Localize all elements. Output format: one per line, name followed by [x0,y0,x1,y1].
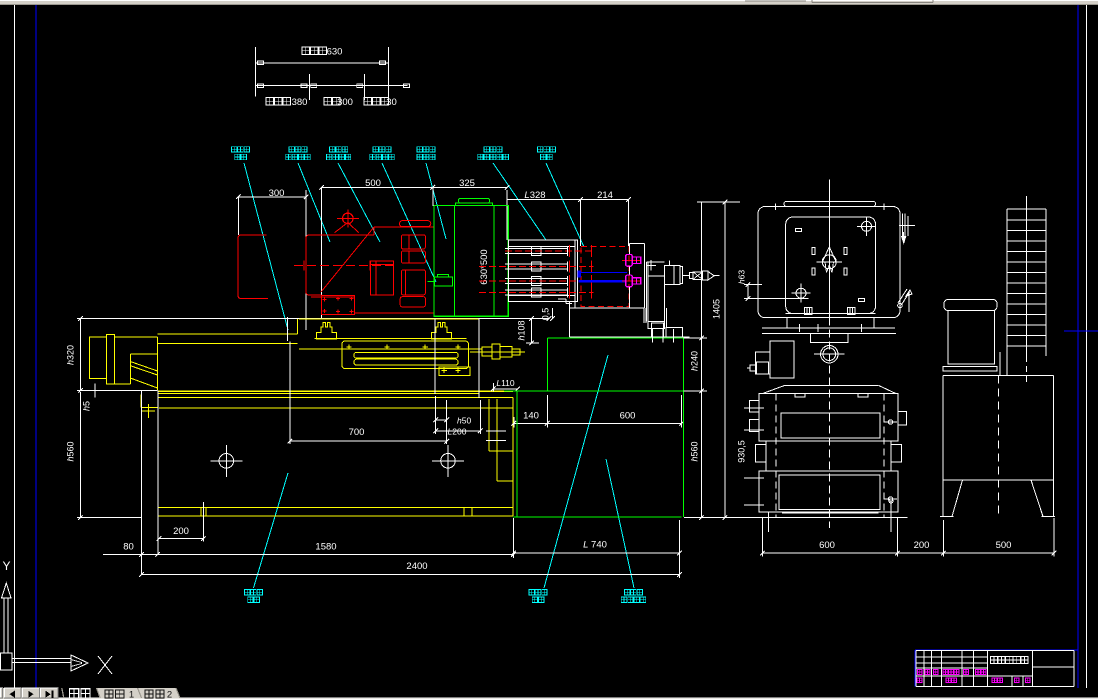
svg-text:200: 200 [173,526,189,537]
svg-text:h240: h240 [690,351,700,371]
svg-text:600: 600 [620,411,636,422]
svg-text:630: 630 [327,47,343,58]
svg-text:600: 600 [819,540,835,551]
svg-text:h50: h50 [457,416,471,426]
svg-text:2400: 2400 [406,561,427,572]
svg-text:2: 2 [167,689,172,699]
svg-text:Y: Y [2,559,10,573]
svg-text:300: 300 [337,97,353,108]
svg-text:30: 30 [386,97,397,108]
svg-text:1405: 1405 [712,299,722,319]
svg-text:L200: L200 [448,427,467,437]
svg-text:L 740: L 740 [583,540,607,551]
svg-text:380: 380 [292,97,308,108]
svg-text:h560: h560 [66,441,76,461]
svg-text:h5: h5 [82,401,92,411]
svg-text:L110: L110 [496,378,515,388]
svg-text:h320: h320 [66,345,76,365]
svg-text:140: 140 [523,411,539,422]
svg-text:200: 200 [914,540,930,551]
svg-text:h108: h108 [517,320,527,340]
svg-text:300: 300 [269,188,285,199]
svg-text:80: 80 [123,542,134,553]
svg-text:h560: h560 [690,441,700,461]
svg-text:500: 500 [996,540,1012,551]
svg-text:1: 1 [129,689,134,699]
svg-text:930,5: 930,5 [737,440,747,463]
svg-text:1580: 1580 [315,542,336,553]
svg-text:700: 700 [349,427,365,438]
svg-text:h63: h63 [737,270,747,284]
